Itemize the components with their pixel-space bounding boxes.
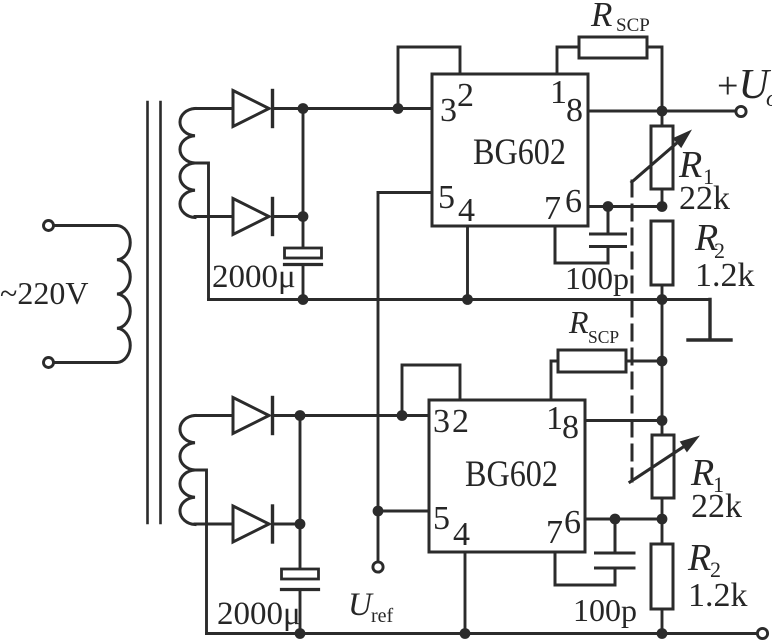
wire rectifier node vertical 2 [299,416,302,570]
capacitor C3 2000u minus plate [282,588,319,591]
capacitor C4 100p [555,519,634,585]
resistor R2a body [651,221,673,285]
svg-text:8: 8 [566,92,583,129]
svg-text:SCP: SCP [616,15,650,36]
bottom rail wire [207,632,758,635]
wire RSCP2 right [626,360,662,363]
ground [688,300,731,341]
svg-text:100p: 100p [565,260,629,296]
diode VD1 [233,91,273,127]
wire R1a bottom [661,189,664,207]
wire Uref vertical [377,193,380,563]
node dot pin3 node U2 [397,410,408,421]
capacitor C3 2000u plus plate [282,569,319,579]
AC input terminal top [44,221,54,231]
node dot RSCP2 junction [657,356,668,367]
svg-text:4: 4 [458,192,475,229]
svg-text:2000μ: 2000μ [212,259,296,295]
wire VD4 cathode to node [273,523,301,526]
wire R2b bottom [661,609,664,634]
AC input terminal bottom [44,358,54,368]
capacitor C1 2000u plus plate [285,248,322,258]
node dot pin4 U1 on mid rail [462,294,473,305]
svg-text:ref: ref [371,605,394,627]
wire rectifier node vertical 1 [302,109,305,249]
svg-text:2: 2 [457,77,474,114]
node dot pin3 node U1 [393,103,404,114]
node dot R1b R2b junction [657,514,668,525]
wire VD1 cathode to pin3 node [273,107,433,110]
capacitor C2 100p [555,207,626,264]
wire pin5 U1 to Uref line [378,191,432,194]
node dot +Uo junction [657,106,668,117]
wire C1 to mid rail [302,265,305,300]
wire R2b top [661,519,664,544]
node dot VD4 junction [295,519,306,530]
capacitor C1 2000u minus plate [285,263,322,266]
svg-text:R: R [590,0,612,34]
wire pin2 loop U2 [402,365,460,416]
diode VD3 [233,398,273,434]
svg-text:SCP: SCP [588,327,619,347]
wire secondary1 bottom to diode VD2 [195,215,233,218]
svg-text:7: 7 [544,190,561,227]
svg-text:7: 7 [546,514,563,551]
transformer T primary winding [55,226,130,363]
wire pin8 U2 [585,419,662,422]
wire RSCP1 right to +Uo node [647,47,662,111]
wire VD2 cathode to node [273,215,304,218]
resistor R1a body [651,126,673,189]
wire secondary1 top to diode VD1 [195,107,233,110]
node dot pin4 U2 [460,628,471,639]
node dot cap C2 tap [603,201,614,212]
node dot R2a on mid rail [657,294,668,305]
resistor RSCP2 body [558,350,626,372]
wire pin8 U1 to +Uo terminal [588,110,736,113]
node dot pin8 U2 junction [657,415,668,426]
node dot R2b on bottom rail [657,628,668,639]
mid rail wire [209,298,711,301]
wire VD3 cathode to pin3 node U2 [273,414,430,417]
svg-text:6: 6 [565,183,582,220]
transformer secondary winding bottom [180,416,195,525]
resistor R1b body [652,435,674,498]
svg-text:1.2k: 1.2k [688,577,748,614]
svg-text:4: 4 [453,516,470,553]
svg-text:o: o [766,86,772,112]
wire center tap 1 [195,163,209,300]
svg-text:8: 8 [562,409,579,446]
wire pin1 stub U1 [557,47,579,74]
wire pin2 loop U1 [398,47,460,109]
wire R1a top [661,111,664,126]
node dot VD3 junction [295,410,306,421]
wire main vertical right mid [661,300,664,436]
node dot C3 on bottom rail [295,628,306,639]
svg-text:6: 6 [564,504,581,541]
wire secondary2 top to diode VD3 [195,414,233,417]
arrow R1a [632,139,681,182]
transformer core [148,102,161,523]
svg-text:1: 1 [550,74,567,111]
node dot R1 R2 junction [657,201,668,212]
op IC U2 BG602 box [429,400,585,552]
wire center tap 2 [195,470,207,634]
wire R1b bottom [661,498,664,519]
terminal -Uo [757,628,767,638]
svg-text:3: 3 [433,403,450,440]
svg-text:3: 3 [440,92,457,129]
wire pin4 U2 to bottom rail [464,552,467,634]
svg-text:+U: +U [717,62,771,108]
node dot VD2 junction [298,211,309,222]
svg-text:~220V: ~220V [0,275,88,311]
svg-text:BG602: BG602 [473,132,566,173]
svg-text:1.2k: 1.2k [695,257,755,294]
wire pin4 U1 to mid rail [466,226,469,300]
wire pin6 U2 [585,518,662,521]
wire secondary2 bottom to diode VD4 [195,523,233,526]
transformer secondary winding top [180,109,195,218]
svg-text:22k: 22k [679,180,730,217]
svg-text:22k: 22k [691,488,742,525]
svg-text:BG602: BG602 [465,454,558,495]
node dot Uref pin5 [373,506,384,517]
svg-text:1: 1 [546,400,563,437]
node dot VD1 junction [298,103,309,114]
svg-text:R: R [687,537,711,579]
diode VD2 [233,199,273,235]
terminal +Uo [736,106,746,116]
terminal Uref [373,562,383,572]
arrow R1b [630,444,688,482]
wire R2a bottom [661,285,664,300]
svg-text:5: 5 [433,500,450,537]
svg-text:2000μ: 2000μ [217,596,301,632]
svg-text:5: 5 [438,179,455,216]
node dot C1 on mid rail [298,294,309,305]
wire pin6 U1 to divider [588,205,662,208]
svg-text:R: R [568,304,589,340]
resistor RSCP1 body [579,37,647,58]
wire pin1 stub U2 [551,361,558,400]
resistor R2b body [651,544,673,609]
op IC U1 BG602 box [432,74,588,226]
node dot cap C4 tap [610,514,621,525]
svg-text:100p: 100p [573,592,637,628]
wire pin5 U2 to Uref line [378,510,429,513]
svg-text:2: 2 [452,403,469,440]
wire C3 to bottom rail [299,590,302,634]
dashed gang line [631,181,634,481]
diode VD4 [233,506,273,542]
